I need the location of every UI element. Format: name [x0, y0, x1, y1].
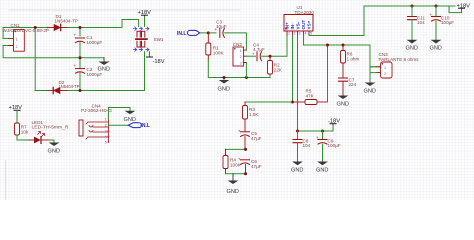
net flag +18V at switch — [138, 10, 152, 27]
resistor R1 100K — [206, 33, 225, 60]
svg-text:104: 104 — [303, 143, 311, 148]
wire pin3 VS- down — [297, 35, 299, 131]
wire bottom node to gnd — [226, 173, 246, 175]
svg-text:GND: GND — [227, 189, 239, 195]
capacitor C7 224 — [339, 77, 357, 95]
svg-text:VS-: VS- — [296, 21, 301, 29]
junction R6 top — [342, 44, 345, 47]
capacitor C5 47uF — [238, 128, 262, 149]
svg-text:1: 1 — [240, 49, 242, 53]
wire AC hot vertical branch — [34, 28, 36, 91]
svg-text:LED-TH-5mm_R: LED-TH-5mm_R — [32, 124, 70, 129]
LED LED1 — [29, 120, 69, 144]
svg-text:1N5404-TP: 1N5404-TP — [59, 84, 80, 89]
wire C2 branch — [79, 58, 81, 91]
net flag +18V top right — [449, 3, 470, 12]
net flag -18V — [328, 118, 340, 124]
op-amp U1 TDA2030 — [284, 5, 314, 35]
wire CN1 pin1 — [3, 37, 9, 39]
svg-text:GND: GND — [98, 67, 110, 73]
junction gnd rail at R1 — [223, 76, 226, 79]
svg-text:47µF: 47µF — [251, 136, 262, 141]
svg-text:1: 1 — [105, 118, 107, 122]
wire bottom negative rail D2 — [35, 52, 144, 91]
svg-text:1000µF: 1000µF — [87, 40, 103, 45]
svg-text:+: + — [238, 128, 241, 133]
wire node to C3 — [208, 32, 216, 34]
diode D2 1N5404-TP — [48, 80, 80, 94]
svg-text:PARLANTE 8 ohms: PARLANTE 8 ohms — [379, 57, 420, 62]
junction node IN.L — [207, 31, 210, 34]
wire feedback node to R3 — [245, 101, 293, 103]
junction C1 top — [79, 26, 82, 29]
capacitor C8 104 — [293, 131, 311, 162]
svg-text:TDA2030: TDA2030 — [295, 10, 315, 15]
ground power center — [98, 58, 110, 73]
svg-text:CN2: CN2 — [233, 42, 243, 47]
wire R5 to output rail — [327, 45, 329, 102]
wire CN4 pin1 to GND — [108, 108, 130, 120]
svg-text:47K: 47K — [306, 93, 315, 98]
ground C8 — [291, 162, 303, 174]
ground preamp rail — [218, 78, 230, 93]
net flag IN.L at CN4 — [128, 123, 150, 129]
svg-text:1: 1 — [16, 38, 18, 42]
svg-text:PJ-3062-HD-G: PJ-3062-HD-G — [81, 108, 112, 113]
svg-text:+: + — [238, 156, 241, 161]
connector CN2 (volume pot header) — [233, 42, 247, 66]
diode D1 1N5404-TP — [47, 14, 78, 31]
svg-text:IN+: IN+ — [285, 22, 290, 30]
junction output rail R5 — [326, 44, 329, 47]
svg-text:22K: 22K — [274, 68, 283, 73]
svg-text:4: 4 — [105, 135, 107, 139]
wire C1 branch — [79, 28, 81, 58]
net flag IN.L at R1 — [177, 30, 208, 36]
svg-text:+: + — [74, 63, 77, 68]
svg-text:1: 1 — [384, 66, 386, 70]
connector CN3 PARLANTE 8 ohms — [376, 52, 419, 78]
svg-text:GND: GND — [124, 117, 136, 123]
junction C10 top — [435, 5, 438, 8]
junction R2 top — [269, 55, 272, 58]
svg-text:+: + — [252, 51, 255, 56]
svg-text:-18V: -18V — [153, 59, 165, 65]
junction AC branch — [34, 26, 37, 29]
svg-text:47µF: 47µF — [251, 164, 262, 169]
wire node C5/R4/C6 — [226, 148, 246, 150]
switch SW1 — [133, 27, 163, 51]
svg-text:2: 2 — [384, 72, 386, 76]
svg-text:OUT: OUT — [301, 20, 306, 30]
svg-text:GND: GND — [48, 149, 60, 155]
wire CN1 pin2 to center rail — [3, 46, 104, 58]
ground C10 — [430, 40, 442, 52]
svg-text:GND: GND — [364, 89, 376, 95]
svg-text:3: 3 — [105, 130, 107, 134]
junction C2 bottom — [79, 89, 82, 92]
capacitor C11 104 — [408, 6, 426, 40]
wire pin4 output — [304, 35, 381, 67]
wire C4 to IN+ node — [262, 35, 287, 56]
net flag +18V at LED — [9, 105, 23, 123]
svg-text:100K: 100K — [230, 162, 242, 167]
wire CN2 pin3 to gnd rail — [245, 63, 247, 78]
capacitor C3 10uF — [215, 20, 227, 38]
sheet border left — [5, 160, 7, 200]
capacitor C1 1000uF — [74, 33, 103, 46]
svg-text:2: 2 — [240, 55, 242, 59]
svg-text:GND: GND — [218, 87, 230, 93]
ground CN4 — [124, 111, 136, 123]
svg-text:4.7µF: 4.7µF — [253, 47, 265, 52]
junction node C5 C6 R4 — [244, 148, 247, 151]
svg-text:SW1: SW1 — [154, 37, 164, 42]
svg-text:2: 2 — [16, 45, 18, 49]
svg-text:100µF: 100µF — [328, 143, 341, 148]
junction C11 top — [411, 5, 414, 8]
resistor R7 10k — [15, 123, 29, 135]
svg-text:IN.L: IN.L — [177, 31, 186, 37]
wire R1 to gnd rail — [208, 60, 270, 78]
junction center rail — [79, 56, 82, 59]
capacitor C4 4.7uF — [252, 42, 265, 60]
svg-text:GND: GND — [291, 168, 303, 174]
svg-text:1000µF: 1000µF — [87, 72, 103, 77]
sheet border top — [9, 9, 241, 11]
svg-text:10µF: 10µF — [216, 24, 227, 29]
connector CN4 PJ-3062-HD-G — [79, 104, 112, 145]
wire top rail AC to D1 and switch — [3, 20, 139, 39]
svg-text:-18V: -18V — [328, 118, 340, 124]
resistor R6 1 ohm — [341, 45, 360, 78]
svg-text:IN.L: IN.L — [141, 123, 150, 129]
wire pin5 VS+ to top rail — [309, 6, 455, 36]
svg-text:224: 224 — [349, 82, 357, 87]
svg-text:1: 1 — [288, 32, 290, 36]
svg-text:104: 104 — [417, 20, 425, 25]
svg-text:VS+: VS+ — [307, 20, 312, 29]
wire C3 to CN2 pin1 — [225, 33, 247, 50]
svg-text:WJ/OED/DVC-5.08-2P: WJ/OED/DVC-5.08-2P — [3, 28, 50, 33]
ground C9 — [316, 162, 328, 174]
svg-text:+18V: +18V — [457, 3, 471, 9]
ground LED — [48, 140, 60, 155]
wire CN3 pin2 to gnd — [370, 67, 376, 83]
capacitor C10 100uF — [430, 6, 455, 40]
svg-text:1 ohm: 1 ohm — [347, 57, 360, 62]
resistor R5 47K — [293, 89, 328, 105]
junction C9 top — [321, 130, 324, 133]
wire CN2 pin2 to C4 — [246, 55, 255, 57]
svg-text:10k: 10k — [21, 130, 29, 135]
ground C7 — [337, 96, 349, 108]
capacitor C2 1000uF — [74, 63, 103, 77]
svg-text:+18V: +18V — [138, 10, 152, 16]
svg-text:100K: 100K — [213, 50, 225, 55]
resistor R2 22K — [268, 56, 283, 74]
junction pin2 node — [291, 101, 294, 104]
svg-text:GND: GND — [430, 46, 442, 52]
resistor R3 1.5K — [243, 102, 260, 131]
capacitor C6 47uF — [238, 156, 262, 173]
connector CN1 — [3, 23, 50, 51]
resistor R4 100K — [223, 149, 242, 173]
svg-text:3: 3 — [299, 32, 301, 36]
junction node C6 bottom — [244, 172, 247, 175]
svg-text:100µF: 100µF — [441, 20, 454, 25]
svg-text:GND: GND — [316, 168, 328, 174]
svg-text:GND: GND — [406, 46, 418, 52]
svg-text:+: + — [74, 33, 77, 38]
svg-text:1.5K: 1.5K — [249, 112, 259, 117]
wire R7 to LED — [17, 135, 29, 140]
net flag -18V at switch — [147, 52, 165, 65]
svg-text:2: 2 — [294, 32, 296, 36]
svg-text:2: 2 — [105, 124, 107, 128]
svg-text:3: 3 — [240, 61, 242, 65]
ground CN3 — [364, 83, 376, 95]
wire pin2 inverting input down — [292, 35, 294, 102]
ground C11 — [406, 40, 418, 52]
svg-text:5: 5 — [105, 140, 107, 144]
junction gnd rail at CN2 pin3 — [245, 76, 248, 79]
wire CN3 pin1 stub — [370, 66, 376, 68]
ground R4 — [227, 174, 239, 195]
capacitor C9 100uF — [316, 131, 341, 162]
wire -18V rail — [298, 124, 334, 131]
junction C8 top — [296, 130, 299, 133]
wire CN4 pin2 to flag — [108, 124, 128, 126]
svg-text:GND: GND — [337, 102, 349, 108]
svg-text:4: 4 — [305, 32, 307, 36]
svg-text:1N5404-TP: 1N5404-TP — [55, 18, 79, 23]
svg-text:IN-: IN- — [290, 23, 295, 30]
